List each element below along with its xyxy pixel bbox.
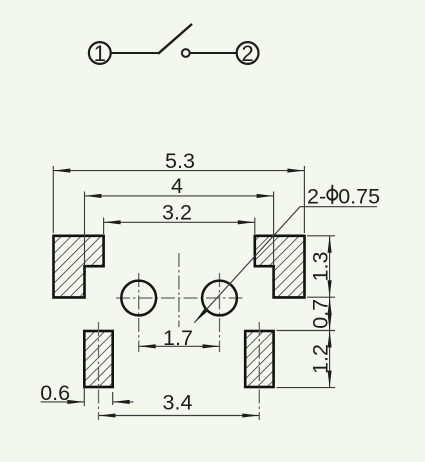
centerline horizontal through holes [116,297,244,299]
dim 5.3 extension right [303,166,305,233]
centerline central vertical [178,253,180,327]
svg-text:1.2: 1.2 [308,344,332,374]
leader arrowhead [193,309,207,324]
centerline vertical hole right [219,273,221,352]
dim 0.7 arrows [328,297,332,314]
dim 1.7 line [139,345,220,347]
centerline bottom-right pad [258,322,260,420]
dim 3.2 extension left [103,218,105,235]
phi symbol circle [327,190,337,200]
dim 0.6 extension right [112,392,114,405]
dim 0.6 extension left [83,387,85,407]
terminal circle 1 [89,42,111,64]
switch contact circle [182,49,190,57]
pad bottom-left (hatched) [84,331,112,387]
svg-text:1: 1 [94,41,106,66]
dim 4 extension right [273,192,275,266]
dim 3.2 line [104,221,255,223]
svg-text:2: 2 [241,41,253,66]
svg-text:1.7: 1.7 [163,326,193,350]
dim 0.6 shelf line [41,401,85,403]
svg-text:5.3: 5.3 [165,149,195,173]
leader shelf [194,207,377,323]
right stack extension pad bottom [307,296,335,298]
switch symbol wire left [111,52,159,54]
right stack dim line [329,236,331,388]
svg-text:4: 4 [171,174,183,198]
dim 5.3 line [53,170,304,172]
svg-text:1.3: 1.3 [308,252,332,282]
svg-text:0.7: 0.7 [308,299,332,329]
centerline vertical hole left [138,273,140,352]
right stack extension lower pad bottom [277,387,336,389]
dim 3.4 line [99,415,260,417]
dim 5.3 extension left [52,166,54,233]
switch symbol wire right [190,52,237,54]
hole right [202,281,237,316]
hole left [121,281,156,316]
dim 1.3 arrows [328,236,332,253]
pad bottom-right (hatched) [245,331,273,387]
dim 3.2 extension right [254,218,256,235]
centerline bottom-left pad [98,322,100,420]
svg-text:0.75: 0.75 [338,184,380,208]
dim 4 extension left [84,192,86,266]
pad top-right (hatched) [255,236,305,298]
right stack extension top [307,235,335,237]
phi symbol stroke [331,185,333,204]
dim 4 line [85,195,274,197]
svg-text:3.2: 3.2 [162,201,192,225]
right stack extension lower pad top [277,330,336,332]
dim 1.2 arrows [328,331,332,348]
dim 0.6 right line [113,401,134,403]
svg-text:0.6: 0.6 [40,381,70,405]
terminal circle 2 [237,42,259,64]
pad top-left (hatched) [54,236,104,298]
svg-text:3.4: 3.4 [163,391,193,415]
switch lever [158,24,192,54]
svg-text:2-: 2- [307,184,326,208]
